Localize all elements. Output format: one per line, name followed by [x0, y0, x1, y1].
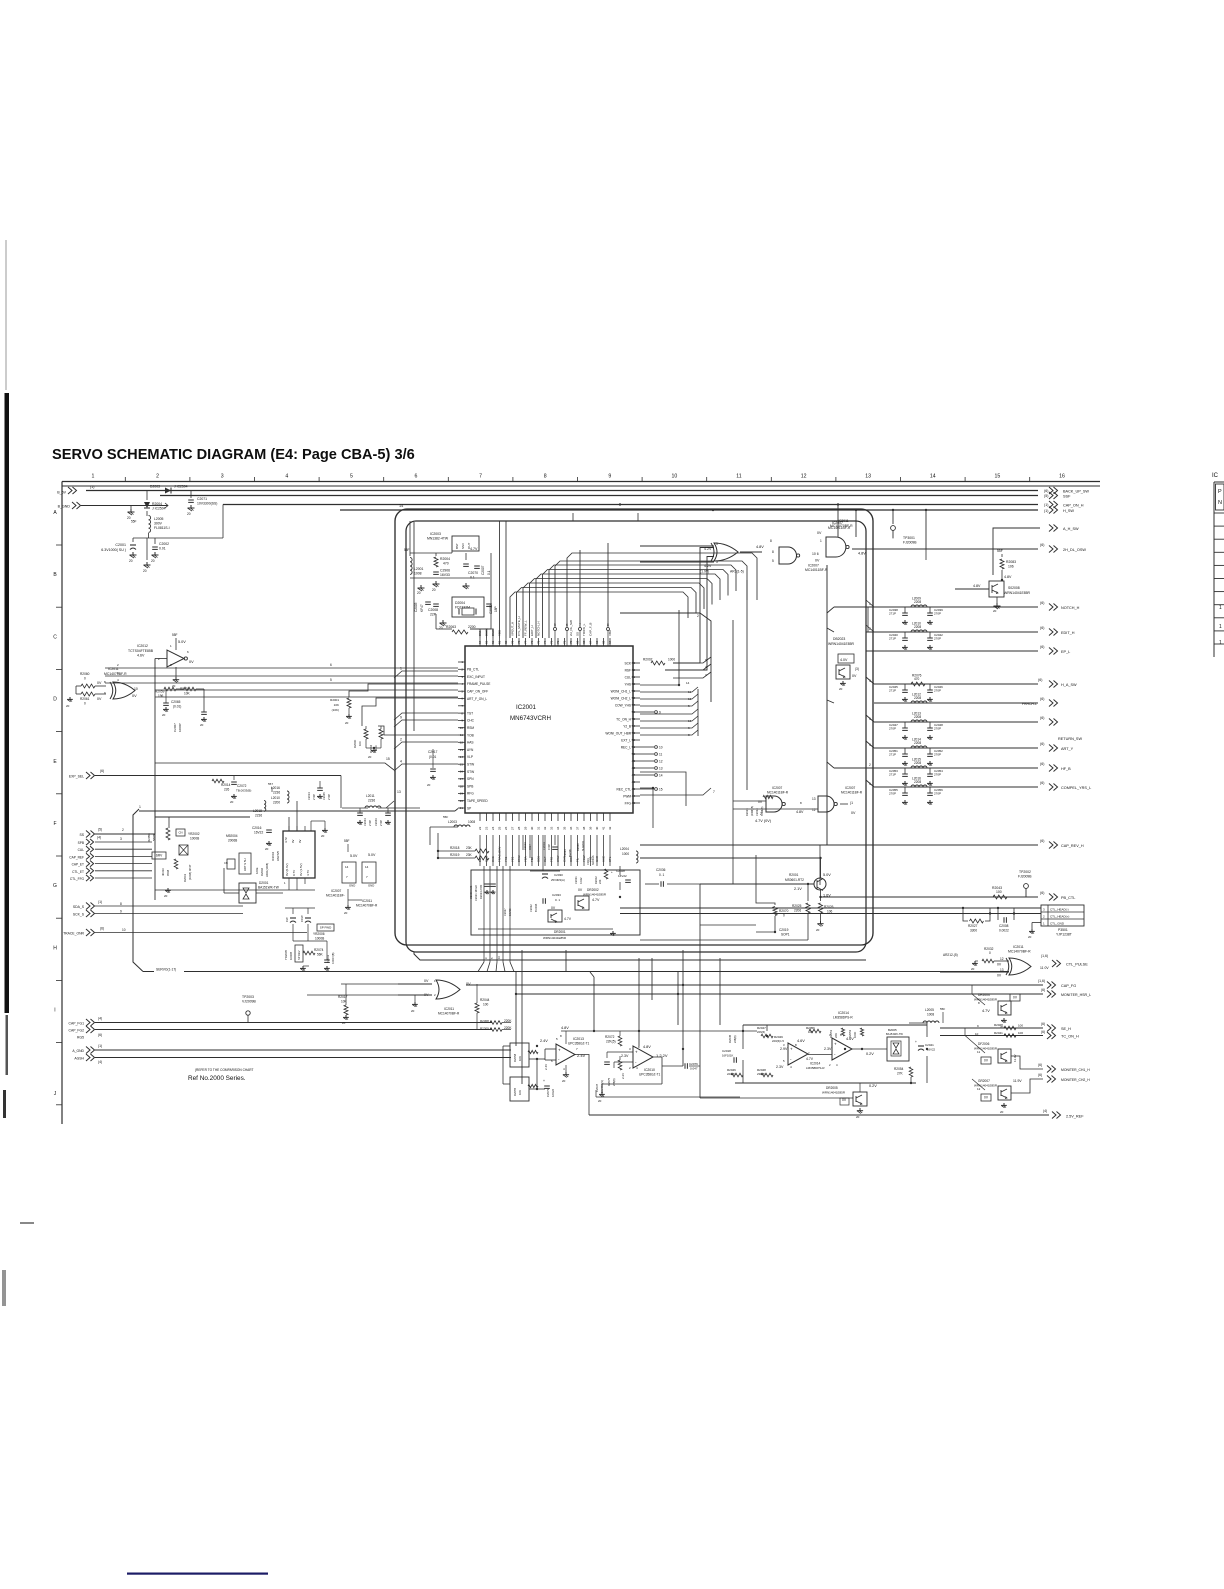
- svg-text:(5): (5): [1044, 494, 1048, 498]
- wire cluster top rail: [743, 1024, 927, 1026]
- svg-text:2.3V: 2.3V: [621, 1054, 629, 1058]
- svg-text:52: 52: [632, 738, 636, 742]
- svg-text:IC2011: IC2011: [1013, 945, 1024, 949]
- box module DR2001 outline: [471, 870, 640, 935]
- svg-text:20: 20: [164, 894, 168, 898]
- svg-text:0V: 0V: [578, 888, 583, 892]
- svg-text:1: 1: [1219, 640, 1222, 646]
- svg-text:S02008: S02008: [1008, 586, 1020, 590]
- svg-text:24: 24: [491, 826, 495, 830]
- wire TRACE: [95, 932, 307, 934]
- svg-text:NOTCH_H: NOTCH_H: [1061, 606, 1080, 610]
- svg-text:MN6743VCRH: MN6743VCRH: [510, 715, 551, 722]
- svg-text:(1008) 4P4T: (1008) 4P4T: [188, 864, 192, 880]
- svg-text:R2061: R2061: [80, 697, 90, 701]
- svg-text:16V22: 16V22: [551, 1088, 555, 1097]
- box resistor R2055 10K: [510, 1077, 529, 1101]
- svg-text:4.6V: 4.6V: [137, 654, 145, 658]
- wire R2031 to C2067: [176, 688, 184, 690]
- svg-text:20: 20: [839, 687, 843, 691]
- svg-text:(6): (6): [1040, 762, 1044, 766]
- svg-text:1: 1: [139, 805, 141, 809]
- svg-text:3: 3: [221, 474, 224, 480]
- svg-text:23K: 23K: [466, 853, 473, 857]
- svg-text:IC2011: IC2011: [362, 899, 372, 903]
- svg-text:L2005: L2005: [925, 1008, 934, 1012]
- svg-text:20: 20: [368, 755, 372, 759]
- svg-text:IC2014: IC2014: [838, 1011, 849, 1015]
- svg-text:13: 13: [659, 766, 663, 770]
- svg-text:0V: 0V: [997, 974, 1002, 978]
- svg-text:(REFER TO THE COMPARISON CHART: (REFER TO THE COMPARISON CHART: [195, 1068, 254, 1072]
- svg-text:WRN14041E85R: WRN14041E85R: [543, 936, 567, 940]
- wire SDA SCK: [95, 905, 243, 907]
- svg-text:DR2001: DR2001: [554, 930, 566, 934]
- svg-text:(2008)(B): (2008)(B): [751, 806, 754, 816]
- svg-text:34: 34: [556, 826, 560, 830]
- svg-text:R2070: R2070: [779, 909, 789, 913]
- svg-text:TRACE_ONR: TRACE_ONR: [63, 932, 84, 936]
- svg-text:270P: 270P: [889, 727, 896, 731]
- svg-text:+: +: [558, 1047, 561, 1052]
- svg-text:55F: 55F: [443, 815, 448, 819]
- svg-text:22X(6): 22X(6): [727, 1072, 735, 1076]
- svg-text:SP REV: SP REV: [297, 950, 301, 960]
- svg-text:R2058: R2058: [513, 1053, 517, 1062]
- block driver IC: [283, 831, 315, 878]
- svg-text:20: 20: [432, 588, 436, 592]
- svg-text:SOP1: SOP1: [781, 933, 790, 937]
- svg-text:+: +: [635, 1050, 638, 1055]
- svg-text:MS0601-RT2: MS0601-RT2: [785, 878, 804, 882]
- svg-text:26: 26: [504, 826, 508, 830]
- svg-text:SPB: SPB: [78, 841, 84, 845]
- svg-text:A_GND: A_GND: [72, 1049, 84, 1053]
- svg-text:C2002: C2002: [159, 542, 169, 546]
- svg-text:RFG: RFG: [467, 792, 474, 796]
- svg-text:MONITER_CH2_H: MONITER_CH2_H: [1061, 1078, 1090, 1082]
- svg-text:0V: 0V: [997, 963, 1002, 967]
- svg-text:45: 45: [632, 787, 636, 791]
- ic IC2001 body: [465, 646, 633, 813]
- svg-text:10: 10: [659, 745, 663, 749]
- connector P3501: [1041, 905, 1084, 926]
- svg-text:(3): (3): [855, 667, 859, 671]
- svg-text:1000B: 1000B: [190, 837, 199, 841]
- svg-text:TP2002: TP2002: [1019, 870, 1031, 874]
- svg-text:7: 7: [713, 790, 715, 794]
- svg-text:WRN14041E85R: WRN14041E85R: [1004, 591, 1031, 595]
- svg-text:25V3R3(A): 25V3R3(A): [551, 878, 565, 882]
- svg-text:TP2003: TP2003: [242, 995, 254, 999]
- svg-text:14: 14: [365, 865, 369, 869]
- box CN YR2002: [176, 829, 185, 836]
- svg-text:4: 4: [869, 743, 871, 747]
- svg-text:4.2V: 4.2V: [704, 547, 712, 551]
- svg-text:AYN: AYN: [467, 748, 474, 752]
- wire right transistor feeds: [971, 985, 973, 994]
- svg-text:C2007: C2007: [481, 565, 485, 575]
- transistor S02008: [989, 581, 1004, 597]
- svg-text:270P: 270P: [934, 792, 941, 796]
- svg-text:IC2007: IC2007: [808, 564, 819, 568]
- wire notch feed: [925, 549, 927, 560]
- svg-text:55F: 55F: [344, 839, 350, 843]
- svg-text:MC14070BF-R: MC14070BF-R: [104, 672, 127, 676]
- wire pin step A to R2001: [349, 684, 458, 697]
- svg-text:TC_ON_H: TC_ON_H: [616, 717, 632, 721]
- svg-text:A_H_SW: A_H_SW: [1063, 527, 1079, 531]
- svg-text:(6): (6): [1038, 1073, 1042, 1077]
- svg-text:(6): (6): [1041, 1030, 1045, 1034]
- svg-text:(6): (6): [98, 1033, 102, 1037]
- svg-text:EDIT_H: EDIT_H: [530, 625, 534, 636]
- svg-text:2H_DL_OSW: 2H_DL_OSW: [1063, 548, 1086, 552]
- svg-text:R2041: R2041: [994, 1031, 1003, 1035]
- svg-text:C2013: C2013: [326, 954, 330, 963]
- capacitor C2009 18P: [486, 603, 492, 605]
- svg-text:55F: 55F: [997, 549, 1003, 553]
- svg-text:MC14070BF-R: MC14070BF-R: [438, 1012, 460, 1016]
- svg-text:IC2007: IC2007: [772, 786, 783, 790]
- svg-text:55F: 55F: [404, 548, 410, 552]
- svg-text:F: F: [53, 821, 56, 827]
- svg-text:106: 106: [1008, 565, 1014, 569]
- svg-text:270P: 270P: [934, 689, 941, 693]
- svg-text:2: 2: [156, 474, 159, 480]
- svg-text:2208: 2208: [914, 625, 921, 629]
- wire CAP_REV_H: [660, 844, 1038, 846]
- svg-text:0: 0: [989, 951, 991, 955]
- svg-text:55F: 55F: [172, 633, 178, 637]
- svg-text:5608: 5608: [152, 834, 156, 841]
- svg-text:(1): (1): [98, 900, 102, 904]
- svg-text:8: 8: [772, 550, 774, 554]
- scan edge strip left: [5, 393, 10, 1013]
- wire CTL_HEAD lines: [620, 907, 1041, 909]
- wire cluster rails: [409, 521, 411, 556]
- svg-text:70: 70: [569, 640, 573, 644]
- svg-text:(6): (6): [1040, 742, 1044, 746]
- wire row ART_Y: [874, 747, 1038, 749]
- wire H_SW drop to gates: [855, 510, 857, 537]
- svg-text:AGSH: AGSH: [74, 1057, 84, 1061]
- wire cluster bottom rail: [735, 1082, 916, 1084]
- svg-text:CN: CN: [178, 831, 182, 835]
- svg-text:32: 32: [543, 826, 547, 830]
- svg-text:WRN14041E85R: WRN14041E85R: [828, 642, 855, 646]
- svg-text:0. 1: 0. 1: [555, 898, 560, 902]
- svg-text:R2025: R2025: [792, 904, 802, 908]
- svg-text:RETURN_SW: RETURN_SW: [1058, 737, 1082, 741]
- svg-text:4.8V: 4.8V: [973, 584, 981, 588]
- ic IC2001 top pins: [479, 638, 481, 646]
- svg-text:40316: 40316: [161, 868, 165, 876]
- svg-text:226: 226: [224, 788, 230, 792]
- svg-text:4.7V: 4.7V: [284, 837, 288, 843]
- wire xor to nand: [740, 551, 762, 553]
- svg-text:C2021: C2021: [587, 857, 590, 865]
- svg-text:6.3V1000( SU ): 6.3V1000( SU ): [101, 548, 126, 552]
- wire pin62 to xor: [665, 557, 714, 671]
- wire 4.8V drop: [925, 510, 927, 549]
- svg-text:C2001: C2001: [115, 543, 126, 547]
- svg-text:0.0022: 0.0022: [999, 929, 1009, 933]
- svg-text:223: 223: [598, 879, 602, 884]
- resistor R2027 3300: [963, 908, 968, 921]
- svg-text:R2019: R2019: [450, 853, 460, 857]
- svg-text:12: 12: [688, 697, 692, 701]
- svg-text:R2014: R2014: [221, 783, 231, 787]
- svg-text:13: 13: [865, 474, 871, 480]
- svg-text:12: 12: [977, 1087, 981, 1091]
- svg-text:27K: 27K: [897, 1072, 904, 1076]
- svg-text:18P: 18P: [494, 606, 498, 612]
- svg-text:CAP_ET: CAP_ET: [72, 863, 84, 867]
- svg-text:COW_YHS: COW_YHS: [615, 703, 631, 707]
- svg-text:2: 2: [760, 812, 762, 816]
- svg-text:7: 7: [579, 623, 581, 627]
- svg-text:FRHCH-L: FRHCH-L: [1022, 702, 1037, 706]
- svg-text:4: 4: [285, 474, 288, 480]
- wire collector feed: [640, 857, 821, 859]
- svg-text:R2308: R2308: [480, 1019, 489, 1023]
- wire bus BACK_UP_SW: [86, 490, 1038, 492]
- wire CAP_FG lines: [95, 1022, 492, 1024]
- wire xor input 13: [940, 971, 1009, 973]
- svg-text:8: 8: [607, 623, 609, 627]
- svg-text:WONI_OUT_HBR: WONI_OUT_HBR: [605, 731, 631, 735]
- svg-text:14: 14: [659, 773, 663, 777]
- svg-text:271P: 271P: [889, 612, 896, 616]
- junction dots misc: [619, 896, 621, 898]
- resistor R2043 100: [993, 895, 1007, 899]
- wire xor left feeds: [76, 685, 81, 687]
- svg-text:20: 20: [321, 834, 325, 838]
- svg-text:L2004: L2004: [620, 847, 629, 851]
- svg-text:5: 5: [869, 717, 871, 721]
- svg-text:MC14011BF-R: MC14011BF-R: [828, 526, 851, 530]
- svg-text:15: 15: [659, 787, 663, 791]
- svg-text:B.0035: B.0035: [534, 903, 538, 912]
- svg-text:10: 10: [134, 687, 138, 691]
- svg-text:LM358DPS-R: LM358DPS-R: [833, 1016, 853, 1020]
- svg-text:8: 8: [770, 539, 772, 543]
- svg-text:IC2010: IC2010: [644, 1068, 655, 1072]
- svg-text:27: 27: [511, 826, 515, 830]
- svg-text:5: 5: [716, 560, 718, 564]
- resistor R2074 56K: [303, 951, 315, 955]
- svg-text:SPN: SPN: [467, 777, 474, 781]
- svg-text:L2016: L2016: [271, 786, 280, 790]
- svg-text:1: 1: [92, 474, 95, 480]
- svg-text:IC2013: IC2013: [573, 1037, 584, 1041]
- svg-text:12: 12: [1000, 957, 1004, 961]
- svg-text:1000B: 1000B: [289, 952, 293, 960]
- svg-text:C2033: C2033: [552, 893, 561, 897]
- svg-text:1000B: 1000B: [315, 937, 324, 941]
- svg-text:CAP_ON_OFF: CAP_ON_OFF: [467, 690, 488, 694]
- svg-text:TST: TST: [467, 711, 473, 715]
- svg-text:CAP_FG: CAP_FG: [1061, 984, 1076, 988]
- svg-text:EP_L: EP_L: [1061, 650, 1070, 654]
- wire L2005 to C2001: [148, 533, 150, 538]
- svg-text:47: 47: [632, 773, 636, 777]
- svg-text:IC2007: IC2007: [832, 521, 843, 525]
- svg-text:15: 15: [386, 757, 390, 761]
- svg-text:MC14070BF-R: MC14070BF-R: [356, 904, 378, 908]
- svg-text:0V: 0V: [424, 979, 429, 983]
- svg-text:80: 80: [504, 640, 508, 644]
- coil L2012: [911, 701, 927, 703]
- svg-text:0.1: 0.1: [470, 576, 475, 580]
- box resistor R2058 10K: [510, 1043, 529, 1067]
- frame left edge: [61, 482, 63, 1125]
- svg-text:2236: 2236: [273, 791, 280, 795]
- svg-text:(6): (6): [1041, 1022, 1045, 1026]
- svg-text:N: N: [1218, 500, 1222, 506]
- svg-text:C2031: C2031: [574, 876, 578, 884]
- ic IC2001 right stub circles: [640, 711, 654, 713]
- wire driver pins: [288, 826, 290, 831]
- svg-text:74: 74: [543, 640, 547, 644]
- crystal D2004: [452, 597, 484, 617]
- svg-text:C2014: C2014: [307, 792, 311, 800]
- svg-text:69: 69: [576, 640, 580, 644]
- svg-text:5.0V: 5.0V: [350, 854, 358, 858]
- svg-text:16: 16: [688, 719, 692, 723]
- ic IC2001 left pins: [458, 661, 465, 663]
- svg-text:R2309: R2309: [480, 1027, 489, 1031]
- frame top line: [62, 485, 1100, 487]
- svg-text:R2072: R2072: [605, 1035, 615, 1039]
- resistor R2002 1000: [651, 661, 665, 665]
- svg-text:(6): (6): [1040, 891, 1044, 895]
- svg-text:55F: 55F: [131, 520, 137, 524]
- wire crossing horizontals: [341, 983, 398, 985]
- wire PWM drop: [652, 787, 654, 789]
- ground D2003 branch: [146, 562, 148, 565]
- coil L2005: [146, 511, 148, 516]
- svg-text:L2010: L2010: [271, 796, 280, 800]
- svg-text:C2013: C2013: [523, 842, 527, 850]
- svg-text:16F101K: 16F101K: [722, 1054, 733, 1058]
- svg-text:36: 36: [569, 826, 573, 830]
- svg-text:4: 4: [400, 760, 402, 764]
- svg-text:2236: 2236: [255, 814, 262, 818]
- svg-text:2: 2: [697, 614, 699, 618]
- wire vertical trunks bottom: [515, 972, 517, 1046]
- svg-text:20: 20: [162, 713, 166, 717]
- svg-text:YJP1238T: YJP1238T: [1056, 933, 1072, 937]
- svg-text:C2071: C2071: [197, 497, 207, 501]
- svg-text:(1.9V): (1.9V): [700, 570, 709, 574]
- svg-text:77: 77: [524, 640, 528, 644]
- svg-text:0. 1: 0. 1: [659, 873, 665, 877]
- svg-text:5: 5: [350, 474, 353, 480]
- wire lower rail: [596, 1096, 740, 1098]
- svg-text:SP: SP: [467, 806, 471, 810]
- svg-text:106: 106: [827, 910, 833, 914]
- ic IC2001 bottom pins: [479, 813, 481, 821]
- svg-text:0.01: 0.01: [159, 547, 166, 551]
- svg-text:TC_ON_H: TC_ON_H: [1061, 1035, 1079, 1039]
- svg-text:14: 14: [399, 504, 403, 508]
- svg-text:4.6V: 4.6V: [797, 1039, 805, 1043]
- diode D2003: [165, 488, 171, 494]
- svg-text:60: 60: [632, 682, 636, 686]
- svg-text:AN3725: AN3725: [276, 850, 280, 861]
- svg-text:12: 12: [659, 759, 663, 763]
- svg-text:L2011: L2011: [366, 794, 375, 798]
- svg-text:CAP_ON_H: CAP_ON_H: [1063, 504, 1084, 508]
- wire bus verticals from top: [572, 513, 574, 521]
- svg-text:H_SW: H_SW: [1063, 509, 1074, 513]
- svg-text:HAS: HAS: [467, 741, 474, 745]
- svg-text:R2055: R2055: [513, 1087, 517, 1096]
- svg-text:3: 3: [120, 837, 122, 841]
- wire right mini bus x698: [697, 689, 699, 736]
- svg-text:R2000: R2000: [353, 739, 357, 748]
- ground C2071: [190, 505, 192, 508]
- svg-text:0V: 0V: [852, 674, 857, 678]
- wire or gate feeds: [398, 983, 432, 985]
- svg-text:79: 79: [511, 640, 515, 644]
- svg-text:20: 20: [345, 721, 349, 725]
- resistor R2070 0: [756, 855, 775, 905]
- svg-text:UPC358GZ-T1: UPC358GZ-T1: [639, 1073, 660, 1077]
- svg-text:10K: 10K: [518, 1090, 522, 1095]
- svg-text:L2018: L2018: [253, 809, 262, 813]
- svg-text:72: 72: [556, 640, 560, 644]
- svg-text:R2028: R2028: [994, 1023, 1003, 1027]
- svg-text:(6): (6): [1040, 781, 1044, 785]
- svg-text:H_A_SW: H_A_SW: [1061, 683, 1077, 687]
- svg-text:557: 557: [268, 782, 273, 786]
- diode R2004 zener: [146, 491, 148, 501]
- svg-text:EXT_L: EXT_L: [621, 738, 631, 742]
- svg-text:R2002: R2002: [594, 876, 598, 884]
- svg-text:4.7V: 4.7V: [564, 917, 572, 921]
- wire bus x827: [826, 565, 828, 845]
- svg-text:CTL_PULSE: CTL_PULSE: [1066, 963, 1088, 967]
- svg-text:SURVND: SURVND: [582, 841, 585, 851]
- svg-text:C2014: C2014: [542, 842, 546, 850]
- svg-text:2006B: 2006B: [228, 839, 237, 843]
- svg-text:270P: 270P: [889, 792, 896, 796]
- svg-text:78: 78: [517, 640, 521, 644]
- svg-text:BS1: BS1: [478, 630, 482, 636]
- svg-text:16V22: 16V22: [927, 1048, 936, 1052]
- svg-text:STW: STW: [467, 763, 474, 767]
- svg-text:P: P: [1218, 489, 1222, 495]
- svg-text:PB_CTL: PB_CTL: [467, 668, 479, 672]
- svg-text:20: 20: [187, 512, 191, 516]
- svg-text:84: 84: [478, 640, 482, 644]
- svg-text:CW: CW: [285, 917, 289, 922]
- svg-text:CAP_REV_H: CAP_REV_H: [1061, 844, 1084, 848]
- ground D2004: [442, 620, 444, 623]
- svg-text:7: 7: [479, 474, 482, 480]
- svg-text:VLP: VLP: [467, 755, 473, 759]
- svg-text:WRN14041E85R: WRN14041E85R: [822, 1091, 846, 1095]
- wire IC left pin runs: [105, 667, 458, 669]
- wire riser comb above IC: [479, 629, 481, 638]
- svg-text:160E: 160E: [255, 867, 259, 874]
- svg-text:2: 2: [869, 763, 871, 767]
- wire gate feeds: [640, 545, 714, 547]
- svg-text:BSC1: BSC1: [491, 628, 495, 636]
